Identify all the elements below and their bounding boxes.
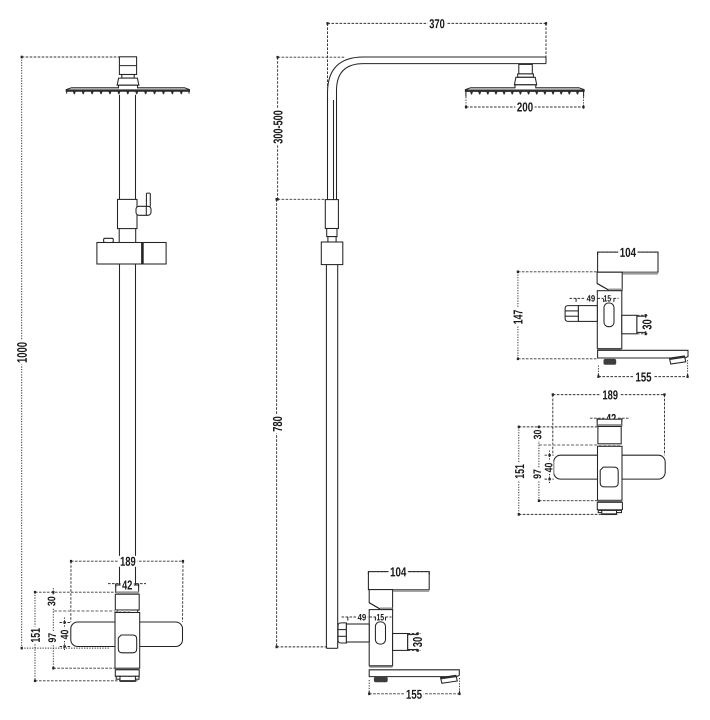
- pipe fitting lower (middle view): [327, 229, 337, 237]
- mounting bolt (middle view): [374, 677, 388, 682]
- spout tip aerator (middle view): [441, 675, 458, 683]
- dim 30 line (right side detail): [645, 315, 647, 334]
- dim 155 line (middle view): [369, 693, 459, 695]
- dim 370 extensions (middle view): [327, 23, 329, 88]
- tub spout (middle view): [369, 670, 459, 677]
- dim ext 199 (middle view): [278, 198, 326, 200]
- dim ext 500 (right front detail): [539, 500, 598, 502]
- mixer neck (right side detail): [597, 272, 622, 290]
- head connector nut (middle view): [518, 74, 534, 77]
- mixer body bottom shadow (right front detail): [598, 500, 623, 502]
- dim label 1000 (left view): [16, 341, 29, 365]
- dim 49/15 line (right side detail): [570, 297, 619, 299]
- riser pipe upper (middle view): [327, 93, 329, 200]
- diverter lever stub (left view): [136, 206, 151, 215]
- dim 189 extensions (right front detail): [552, 395, 554, 456]
- dim 104 line (right side detail): [598, 251, 658, 253]
- dim label 30 (left view): [47, 595, 57, 608]
- dim 49/15 ticks (right side detail): [575, 298, 577, 302]
- pipe segment below diverter (left view): [118, 229, 120, 243]
- dim label 30 (right side detail): [641, 318, 653, 331]
- arm inner bend (middle view): [337, 64, 547, 91]
- dim label 370 (middle view): [428, 18, 447, 29]
- dim 300-500 line (middle view): [277, 57, 279, 199]
- mixer upper body (right front detail): [598, 427, 621, 444]
- dim 49/15 line (middle view): [342, 616, 392, 618]
- check valve body (right side detail): [578, 306, 597, 322]
- dim 189 extensions (left view): [70, 561, 72, 622]
- dim 780 line (middle view): [276, 199, 278, 647]
- diverter housing (left view): [118, 199, 138, 228]
- riser pipe lower (middle view): [325, 265, 327, 649]
- shower head plate (middle view): [465, 85, 584, 92]
- shower outlet nut (middle view): [408, 635, 417, 650]
- shower outlet nut (right side detail): [637, 316, 646, 332]
- dim label 300-500 (middle view): [272, 109, 284, 146]
- check valve hex (right side detail): [565, 306, 578, 322]
- shower outlet (right side detail): [622, 315, 637, 334]
- dim 1000 line (left view): [21, 57, 23, 648]
- mixer emblem (left view): [118, 635, 136, 653]
- dim 155 line (right side detail): [598, 376, 687, 378]
- dim label 30 (right front detail): [533, 428, 543, 441]
- wall bracket cap (left view, top): [119, 57, 136, 75]
- dim 1000 extension bottom (left view): [22, 647, 110, 649]
- dim 189 line (left view): [71, 560, 183, 562]
- dim 42 line (right front detail): [590, 417, 629, 419]
- arm outer bend (middle view): [328, 57, 547, 93]
- mixer handle (middle view): [368, 572, 429, 590]
- head connector stem (middle view): [519, 64, 533, 74]
- dim label 104 (right side detail): [618, 247, 637, 258]
- dim label 30 (middle view): [412, 635, 424, 648]
- dim label 97 (left view): [47, 631, 57, 644]
- dim label 97 (right front detail): [532, 468, 542, 481]
- dim 200 line (middle view): [466, 106, 584, 108]
- mixer main body (right front detail): [598, 446, 623, 500]
- mixer upper body (left view): [115, 594, 139, 610]
- tub spout (right side detail): [598, 350, 688, 358]
- slider bracket (left view): [97, 243, 166, 265]
- mixer aerator tip (left view): [120, 676, 135, 681]
- dim ext 427 (right front detail): [519, 426, 597, 428]
- mixer body bottom shadow (middle view): [369, 666, 392, 668]
- spout tip aerator (right side detail): [669, 356, 685, 364]
- cap neck (left view): [122, 75, 134, 79]
- pipe fitting neck (middle view): [328, 237, 336, 242]
- mixer aerator tip (right front detail): [602, 510, 617, 514]
- mixer top plate 42 (right front detail): [597, 419, 622, 426]
- dim ext 680 (left view): [35, 680, 139, 682]
- dim ext 445 gray (right front detail): [539, 444, 622, 446]
- dim label 200 (middle view): [515, 102, 534, 113]
- mixer main body (left view): [115, 613, 140, 669]
- shower head nozzles (middle view): [470, 92, 473, 95]
- mixer aerator gray line (right front detail): [598, 509, 622, 510]
- dim 147 ext bottom (right side detail): [518, 358, 598, 360]
- mixer waist (left view): [117, 610, 138, 613]
- dim 40 line (right front detail): [549, 451, 551, 484]
- mixer neck (middle view): [369, 590, 392, 609]
- mixer body bottom shadow (left view): [115, 668, 139, 670]
- dim 30/97 line (left view): [52, 588, 54, 668]
- arm inner wall line (middle view): [333, 100, 335, 200]
- mixer bottom cap (right front detail): [597, 502, 622, 509]
- dim 147 ext top (right side detail): [518, 271, 597, 273]
- mixer aerator ears (left view): [116, 676, 120, 679]
- check valve hex (middle view): [338, 623, 346, 643]
- riser pipe long segment (left view): [119, 264, 121, 585]
- dim ext 514 (right front detail): [519, 513, 618, 515]
- mixer body (middle view): [369, 610, 392, 666]
- mixer bottom cap (left view): [115, 670, 139, 677]
- dim 200 extensions (middle view): [465, 97, 467, 110]
- dim label 189 (left view): [119, 556, 138, 567]
- dim label 189 (right front detail): [601, 389, 620, 400]
- shower head plate (left view): [66, 85, 189, 91]
- arm end (middle view): [545, 57, 547, 64]
- dim 40 line (left view): [64, 618, 66, 651]
- dim ext 57 (middle view): [278, 56, 345, 58]
- dim ext 611 gray (left view): [54, 610, 130, 612]
- dim label 49 (middle view): [356, 613, 368, 621]
- diverter lever rod (left view): [146, 193, 150, 207]
- dim label 40 (left view): [60, 628, 70, 641]
- dim label 15 (middle view): [376, 613, 384, 621]
- dim label 40 (right front detail): [544, 461, 554, 474]
- dim label 42 (right front detail): [605, 413, 618, 424]
- shower outlet (middle view): [393, 634, 408, 651]
- dim label 104 (middle view): [389, 566, 408, 577]
- dim 30/97 line (right front detail): [538, 427, 540, 501]
- mixer handle bar (left view): [71, 622, 183, 647]
- dim label 780 (middle view): [272, 415, 284, 434]
- check valve body (middle view): [346, 624, 369, 642]
- slider bracket tab (left view): [104, 238, 114, 242]
- mixer body (right side detail): [597, 291, 622, 349]
- dim label 15 (right side detail): [603, 295, 611, 303]
- riser pipe upper segment (left view): [119, 95, 121, 200]
- dim 40 ticks (right front detail): [545, 454, 554, 456]
- pipe fitting sleeve (middle view): [325, 200, 338, 229]
- dim 151 line (right front detail): [518, 427, 520, 515]
- head connector cone (middle view): [514, 77, 536, 85]
- mixer body bottom shadow (right side detail): [597, 349, 622, 351]
- mixer aerator ears (right front detail): [598, 510, 602, 512]
- dim ext 668 (left view): [53, 667, 115, 669]
- dim label 151 (right front detail): [514, 463, 526, 481]
- dim 104 line (middle view): [368, 571, 429, 573]
- dim label 155 (right side detail): [634, 372, 653, 383]
- shower head nozzles (left view): [73, 91, 76, 94]
- dim label 151 (left view): [30, 627, 42, 645]
- mixer handle bar (right front detail): [554, 455, 666, 479]
- shower head mount cone (left view): [117, 78, 139, 85]
- mounting bolt (right side detail): [604, 359, 617, 365]
- dim 42 line (left view): [108, 583, 146, 585]
- dim 30 line (middle view): [417, 634, 419, 651]
- dim 370 line (middle view): [328, 22, 547, 24]
- cartridge slot (right side detail): [604, 303, 614, 327]
- dim 1000 extension top (left view): [22, 56, 120, 58]
- dim 49/15 ticks (middle view): [347, 617, 349, 621]
- dim 40 ticks (left view): [60, 622, 71, 624]
- dim 151 line (left view): [34, 592, 36, 681]
- dim 189 line (right front detail): [553, 394, 665, 396]
- dim ext 647 (middle view): [277, 646, 328, 648]
- dim 147 line (right side detail): [517, 272, 519, 359]
- dim ext 592 (left view): [35, 591, 115, 593]
- dim label 42 (left view): [121, 580, 134, 591]
- union nut (middle view): [321, 242, 343, 265]
- mixer emblem (right front detail): [600, 467, 618, 487]
- dimension end ticks: [21, 56, 23, 59]
- dim label 49 (right side detail): [585, 295, 597, 303]
- mixer top plate 42 (left view): [116, 585, 139, 592]
- cartridge slot (middle view): [375, 622, 385, 644]
- dim label 147 (right side detail): [512, 308, 524, 326]
- mixer handle (right side detail): [598, 252, 658, 272]
- dim label 155 (middle view): [404, 689, 423, 700]
